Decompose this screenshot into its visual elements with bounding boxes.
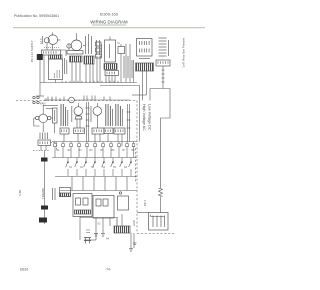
svg-text:EI30S-16S: EI30S-16S [100,13,119,17]
svg-text:FAN: FAN [40,102,45,106]
svg-text:Low Voltage DC: Low Voltage DC [147,104,151,131]
svg-text:N BK: N BK [18,190,22,196]
svg-text:GND: GND [132,220,136,226]
svg-text:Publication No. 5995543861: Publication No. 5995543861 [14,14,59,18]
svg-text:-74-: -74- [105,268,111,272]
svg-text:TRANSF: TRANSF [41,188,45,199]
svg-text:12 3: 12 3 [39,38,43,44]
svg-text:BK 1-16 SUPPLY: BK 1-16 SUPPLY [30,40,34,62]
svg-text:EB16: EB16 [20,268,28,272]
svg-text:High Voltage AC: High Voltage AC [142,104,146,131]
svg-text:'Left' Rear Bar Present: 'Left' Rear Bar Present [182,38,186,68]
svg-text:WIRING DIAGRAM: WIRING DIAGRAM [90,20,128,25]
svg-text:BR 4: BR 4 [143,200,147,206]
